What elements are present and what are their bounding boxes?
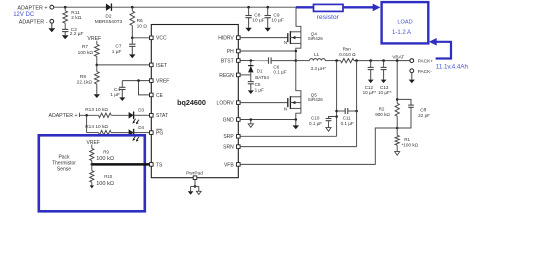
wire BTST pin to C6: [240, 60, 268, 62]
resistor R7 100k: [78, 41, 99, 65]
wire Q4 source: [296, 43, 301, 51]
wire Q5 drain: [296, 61, 301, 97]
wire D3 to STAT pin: [134, 114, 150, 116]
inductor L1 3.3uH: [310, 52, 327, 71]
pin TS: [150, 162, 164, 168]
ground (C12): [368, 70, 374, 84]
wire adapter stub to R13: [80, 114, 99, 116]
svg-text:R14 10 kΩ: R14 10 kΩ: [85, 124, 108, 130]
junction VREF-CE tie: [137, 79, 140, 82]
svg-text:VCC: VCC: [156, 36, 167, 42]
junction R2 top rail: [396, 59, 399, 62]
svg-text:BTST: BTST: [221, 58, 234, 64]
junction SRN-C11: [355, 110, 358, 113]
svg-text:SiR426: SiR426: [308, 97, 324, 102]
capacitor Cff 22pF: [397, 99, 430, 128]
svg-text:PACK-: PACK-: [418, 69, 433, 75]
svg-text:CE: CE: [156, 93, 164, 99]
wire LODRV to Q5 gate: [240, 102, 288, 104]
svg-text:2 kΩ: 2 kΩ: [71, 15, 81, 21]
capacitor C8 10uF: [245, 7, 264, 23]
junction PH-L1 node: [295, 59, 298, 62]
transistor Q5 SiR426: [284, 92, 323, 111]
svg-text:D2: D2: [105, 14, 111, 20]
svg-text:C10: C10: [311, 115, 320, 120]
resistor R8 22.1k: [77, 65, 99, 86]
capacitor C12 10uF: [363, 61, 377, 96]
ground (C8): [245, 18, 251, 32]
annotation box LOAD: [382, 2, 429, 43]
ground (C13): [381, 70, 387, 84]
pin STAT: [150, 113, 169, 119]
arrow into LOAD: [373, 4, 381, 12]
junction VCC node: [131, 37, 134, 40]
resistor R10 100k: [90, 164, 114, 186]
pin PG: [150, 129, 164, 136]
resistor R11 2k: [63, 7, 82, 23]
resistor R6 10ohm: [130, 7, 147, 38]
wire VCC node to VCC pin: [132, 37, 149, 39]
svg-text:C4: C4: [114, 87, 120, 93]
wire VFB run: [240, 128, 397, 164]
svg-text:R10: R10: [104, 174, 113, 179]
svg-text:ADAPTER +: ADAPTER +: [17, 6, 47, 12]
net label 12V DC: [13, 12, 35, 18]
svg-text:1 µF: 1 µF: [255, 87, 264, 92]
op-amp U1 bq24600 IC body: [151, 25, 238, 178]
junction SRP tap: [335, 59, 338, 62]
pin REGN: [219, 73, 240, 79]
junction C12 top: [369, 59, 372, 62]
net label VREF (R7 top): [87, 36, 101, 42]
pin HIDRV: [218, 36, 240, 42]
capacitor C9 10uF: [265, 7, 284, 23]
capacitor C13 10uF: [378, 61, 392, 96]
resistor R2 900k: [375, 103, 399, 128]
resistor R13 10k: [85, 107, 111, 118]
ground (C9): [265, 18, 271, 32]
svg-text:HIDRV: HIDRV: [218, 36, 234, 42]
wire SRN vertical: [356, 61, 358, 147]
wire Rsn to PACK+: [354, 60, 410, 62]
svg-text:C9: C9: [273, 12, 279, 18]
svg-text:SRP: SRP: [223, 134, 234, 140]
wire R14 to D4: [111, 132, 128, 134]
wire REGN pin to D1/C5: [240, 74, 251, 76]
svg-text:2.2 µF: 2.2 µF: [70, 31, 84, 37]
svg-text:0.1 µF: 0.1 µF: [341, 121, 354, 126]
pin VCC: [150, 36, 167, 42]
junction R2-Cff top: [396, 98, 399, 101]
svg-text:10 Ω: 10 Ω: [137, 23, 148, 29]
svg-text:SiR426: SiR426: [308, 36, 324, 41]
svg-text:VREF: VREF: [87, 36, 101, 42]
pin VREF: [150, 79, 170, 85]
svg-text:LODRV: LODRV: [217, 101, 235, 107]
wire Q5 source: [296, 108, 301, 119]
svg-text:10 µF*: 10 µF*: [378, 90, 392, 95]
ground (adapter return): [48, 23, 55, 32]
LED D4: [129, 125, 145, 142]
junction GND stub: [250, 118, 253, 121]
pin CE: [150, 93, 164, 99]
svg-text:R8: R8: [80, 74, 86, 80]
junction SRN tap: [355, 59, 358, 62]
svg-text:PH: PH: [227, 49, 234, 55]
ground (Q5 source): [293, 120, 300, 130]
svg-text:22 pF: 22 pF: [418, 113, 430, 118]
resistor R9 100k: [90, 145, 114, 165]
svg-text:ISET: ISET: [156, 63, 167, 69]
ground (GND pin, open arrow): [248, 120, 253, 128]
transistor Q4 SiR426: [284, 31, 323, 45]
wire blue rail to resistor: [296, 6, 314, 8]
pin ISET: [150, 63, 168, 69]
svg-text:ADAPTER +: ADAPTER +: [49, 113, 78, 119]
junction PH node: [295, 50, 298, 53]
wire VREF to CE jog: [139, 81, 150, 95]
svg-text:22.1kΩ: 22.1kΩ: [77, 80, 93, 86]
svg-text:D1: D1: [257, 69, 263, 74]
junction FB node: [396, 127, 399, 130]
pin BTST: [221, 58, 240, 64]
wire PwrPad split: [191, 186, 199, 191]
pin PH: [227, 49, 240, 55]
ground (PwrPad left): [188, 191, 194, 194]
svg-text:N: N: [284, 40, 287, 45]
node PACK+ terminal: [410, 59, 433, 65]
pin GND: [223, 117, 241, 123]
svg-text:PACK+: PACK+: [418, 59, 434, 65]
net label ADAPTER+ (LED feed): [49, 113, 80, 119]
junction R11 top: [64, 6, 67, 9]
resistor (load, blue box): [314, 4, 344, 21]
diode D1 BAT54: [248, 61, 269, 80]
svg-text:1 µF: 1 µF: [110, 92, 120, 98]
capacitor C10 0.1uF: [309, 115, 337, 125]
junction R6 top: [131, 6, 134, 9]
wire top rail D2 cathode to Q4 drain: [111, 6, 296, 8]
annotation box Pack Thermistor Sense: [39, 135, 145, 211]
svg-text:100 kΩ: 100 kΩ: [78, 50, 94, 56]
svg-text:D3: D3: [138, 108, 144, 113]
wire feed to R14: [87, 132, 99, 134]
svg-text:Sense: Sense: [57, 167, 71, 173]
wire PwrPad stem: [194, 180, 196, 187]
svg-text:900 kΩ: 900 kΩ: [375, 112, 390, 117]
svg-text:10 µF*: 10 µF*: [363, 90, 377, 95]
wire HIDRV to Q4 gate: [240, 37, 288, 39]
node ADAPTER- input terminal: [19, 19, 54, 25]
svg-text:12V DC: 12V DC: [13, 12, 35, 18]
ground (C4): [119, 90, 125, 102]
svg-text:VBAT: VBAT: [392, 55, 404, 61]
svg-text:N: N: [284, 106, 287, 111]
junction ISET node: [96, 64, 99, 67]
junction PwrPad split: [194, 185, 197, 188]
svg-text:C8: C8: [254, 12, 260, 18]
ground (C2): [62, 32, 69, 40]
wire SRP vertical: [336, 61, 338, 137]
pin SRP: [223, 134, 240, 140]
svg-text:100 kΩ: 100 kΩ: [96, 156, 114, 162]
svg-text:R6: R6: [137, 18, 143, 24]
resistor R1 100k: [395, 128, 419, 147]
wire R2 top lead: [396, 61, 398, 104]
net label battery 11.1v 4.4Ah: [436, 63, 469, 70]
pin SRN: [223, 145, 240, 151]
wire L1 to Rsn: [325, 60, 340, 62]
wire TS node to TS pin (thick): [92, 163, 150, 166]
svg-text:C7: C7: [115, 43, 121, 49]
ground (R8): [94, 84, 100, 98]
resistor R14 10k: [85, 124, 111, 135]
resistor Rsn 0.010ohm: [339, 47, 356, 63]
svg-text:ADAPTER -: ADAPTER -: [19, 19, 48, 25]
ground (C5): [248, 84, 254, 94]
capacitor C2 2.2uF: [62, 23, 84, 37]
wire top rail adapter to D2 anode: [54, 6, 106, 8]
wire C6 to PH node: [271, 60, 296, 62]
junction SRP-C10: [335, 115, 338, 118]
wire PH node down: [295, 51, 297, 61]
svg-text:100 kΩ: 100 kΩ: [96, 181, 114, 187]
svg-text:VREF: VREF: [156, 79, 169, 85]
capacitor C6 0.1uF (bootstrap): [269, 57, 287, 74]
svg-text:BAT54: BAT54: [255, 75, 269, 80]
svg-text:GND: GND: [223, 117, 235, 123]
wire R13 to D3: [111, 114, 128, 116]
wire GND pin to Q5 source: [240, 119, 296, 121]
wire SRN pin run: [240, 146, 357, 148]
svg-text:0.010 Ω: 0.010 Ω: [339, 52, 356, 57]
pin VFB: [224, 162, 240, 168]
capacitor C11 0.1uF: [337, 108, 357, 126]
svg-text:SRN: SRN: [223, 145, 234, 151]
svg-text:STAT: STAT: [156, 113, 168, 119]
svg-text:0.1 µF: 0.1 µF: [273, 70, 286, 75]
junction D1 cathode: [250, 59, 253, 62]
svg-text:TS: TS: [156, 162, 163, 168]
ground (PwrPad right, open): [196, 191, 201, 194]
svg-text:PG: PG: [156, 131, 163, 137]
svg-text:VREF: VREF: [87, 140, 100, 146]
net label VREF (thermistor): [87, 140, 100, 146]
svg-text:R9: R9: [103, 150, 109, 155]
svg-text:L1: L1: [314, 52, 320, 57]
ground (C7): [129, 46, 135, 58]
node PACK- terminal: [410, 69, 432, 75]
capacitor C4 1uF: [110, 81, 125, 99]
ground (PACK-): [409, 73, 415, 84]
junction C9 top: [266, 6, 269, 9]
capacitor C5 1uF: [248, 75, 264, 93]
svg-text:Cff: Cff: [420, 108, 427, 113]
junction C13 top: [382, 59, 385, 62]
svg-text:D4: D4: [138, 125, 144, 130]
ground (C10, open arrow): [326, 121, 331, 132]
svg-text:C11: C11: [343, 115, 352, 120]
ground (R1, open arrow): [395, 145, 400, 155]
wire Q4 drain: [296, 7, 301, 32]
wire LED feed down: [86, 115, 88, 132]
wire D4 to PG pin: [134, 132, 150, 134]
ground (R10, arrow): [90, 182, 94, 188]
arrow from pack into LOAD: [429, 38, 437, 46]
wire PH pin to PH node: [240, 50, 296, 52]
svg-text:LOAD: LOAD: [397, 19, 412, 25]
junction TS node: [91, 163, 94, 166]
svg-text:*100 kΩ: *100 kΩ: [402, 142, 419, 147]
svg-text:bq24600: bq24600: [177, 98, 206, 107]
wire blue pack return: [436, 42, 451, 59]
svg-text:1 µF: 1 µF: [112, 49, 122, 55]
svg-text:R7: R7: [82, 44, 88, 50]
LED D3: [129, 108, 145, 125]
capacitor C7 1uF: [112, 38, 136, 55]
svg-text:REGN: REGN: [219, 73, 234, 79]
svg-text:0.1 µF: 0.1 µF: [309, 121, 322, 126]
wire VREF pin to C4: [122, 80, 149, 82]
junction C8 top: [247, 6, 250, 9]
junction SRP-C11: [335, 110, 338, 113]
svg-text:11.1v,4.4Ah: 11.1v,4.4Ah: [436, 63, 469, 70]
pin PwrPad: [186, 170, 203, 179]
svg-text:R13 10 kΩ: R13 10 kΩ: [85, 107, 108, 113]
wire blue resistor to load arrow: [343, 6, 373, 8]
svg-text:resistor: resistor: [317, 14, 340, 21]
node ADAPTER+ input terminal: [17, 5, 53, 11]
svg-text:1-1.2 A: 1-1.2 A: [392, 30, 411, 36]
wire SRP pin run: [240, 135, 337, 137]
svg-text:MBRS540T3: MBRS540T3: [95, 19, 123, 25]
svg-text:3.3 µH*: 3.3 µH*: [311, 66, 327, 71]
wire ISET node to ISET pin: [97, 64, 150, 66]
net label VBAT: [392, 55, 404, 61]
svg-text:PwrPad: PwrPad: [186, 170, 203, 176]
svg-text:10 µF: 10 µF: [271, 18, 283, 24]
pin LODRV: [217, 101, 241, 107]
diode D2 MBRS540T3: [95, 4, 123, 26]
svg-text:10 µF: 10 µF: [252, 18, 264, 24]
svg-text:VFB: VFB: [224, 162, 234, 168]
junction Q5 source node: [295, 118, 298, 121]
wire PH node to L1: [296, 60, 310, 62]
junction LED feed node: [85, 114, 88, 117]
